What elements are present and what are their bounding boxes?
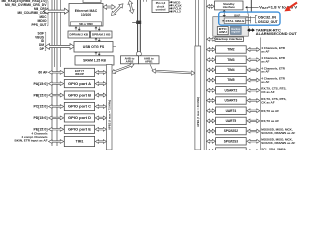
TIM1 box — [64, 136, 94, 146]
GPIO port B box — [64, 91, 94, 99]
arrow TIM1 to APB2 — [95, 140, 106, 144]
arrow TIM3 to pins — [247, 58, 260, 62]
svg-text:ALARM/SECOND OUT: ALARM/SECOND OUT — [256, 32, 297, 36]
labels SPI3/I2S3 AF pins — [261, 138, 295, 145]
svg-text:interface: interface — [223, 5, 235, 9]
arrow GPIO port D to APB2 — [95, 116, 106, 120]
clock output pins — [169, 0, 183, 13]
arrow TIM5 to pins — [247, 78, 260, 82]
arrow I2C1 to pins — [247, 150, 260, 154]
blue highlight rounded box — [219, 12, 280, 25]
arrow PB[15:0] to GPIO port B — [49, 93, 64, 97]
arrow backup to tamper pins — [247, 28, 255, 32]
red annotation arrow — [284, 3, 297, 12]
arrow PD[15:0] to GPIO port D — [49, 116, 64, 120]
arrow 60 AF to EXTI — [49, 71, 64, 75]
svg-text:TIM3: TIM3 — [227, 58, 234, 62]
USB OTG pin labels — [35, 31, 45, 51]
svg-text:PA[15:0]: PA[15:0] — [34, 82, 48, 86]
arrow USART2 to pins — [247, 88, 260, 92]
arrow USART3 to pins — [247, 99, 260, 103]
svg-text:RX,TX as AF: RX,TX as AF — [261, 119, 279, 123]
box above Ethernet MAC (cropped) — [83, 0, 101, 3]
VBAT power line — [250, 0, 252, 12]
svg-text:SRAM 1.25 KB: SRAM 1.25 KB — [83, 59, 106, 63]
arrow SPI3/I2S3 to pins — [247, 139, 260, 143]
svg-text:USART3: USART3 — [225, 99, 238, 103]
RTC AWU box — [217, 27, 228, 35]
labels SPI2/I2S2 AF pins — [261, 128, 295, 135]
arrow APB1 to SPI3/I2S3 — [207, 139, 216, 143]
APB2 bus bar — [106, 65, 112, 151]
SPI3/I2S3 box — [216, 138, 247, 145]
arrow standby to backup domain — [223, 10, 225, 17]
Standby interface box — [215, 1, 244, 10]
small arrow right of USB OTG — [113, 46, 116, 48]
labels TIM4 AF pins — [261, 66, 286, 73]
TIM2 box — [216, 46, 247, 53]
svg-text:PPS_OUT: PPS_OUT — [32, 23, 47, 27]
arrow SPI2/I2S2 to pins — [247, 129, 260, 133]
svg-text:APB2 (f max = 72 MHz): APB2 (f max = 72 MHz) — [107, 100, 111, 130]
svg-text:GPIO port C: GPIO port C — [68, 105, 92, 109]
arrow TIM2 to pins — [247, 48, 260, 52]
labels UART5 AF pins — [261, 119, 279, 123]
MII or RMII strip — [71, 22, 102, 26]
GPIO port C box — [64, 102, 94, 110]
arrow PA[15:0] to GPIO port A — [49, 82, 64, 86]
SPI2/I2S2 box — [216, 127, 247, 134]
svg-text:APB1 (f max = 36 MHz): APB1 (f max = 36 MHz) — [196, 97, 200, 127]
I2C1 box — [216, 148, 247, 155]
backup domain box — [213, 17, 249, 37]
svg-text:SPI2/I2S2: SPI2/I2S2 — [224, 129, 239, 133]
svg-text:SCK/CK, NSS/WS as AF: SCK/CK, NSS/WS as AF — [261, 131, 295, 135]
reset and clock control box — [152, 0, 169, 13]
svg-text:PLL3: PLL3 — [173, 10, 181, 14]
labels UART4 AF pins — [261, 109, 279, 113]
arrow MII bus to Ethernet MAC — [44, 8, 70, 14]
svg-text:DPRAM 2 KB: DPRAM 2 KB — [92, 33, 111, 37]
arrow bridge to APB1 bar — [152, 69, 195, 75]
svg-text:CK as AF: CK as AF — [261, 90, 274, 94]
arrow Ethernet MAC to bus matrix — [103, 5, 116, 10]
labels I2C1 AF pins — [0, 0, 1, 1]
svg-text:SCL, SDA, SMBA: SCL, SDA, SMBA — [261, 148, 286, 150]
diagonal arrow to bus matrix — [112, 4, 124, 16]
Backup interface box — [215, 37, 244, 41]
arrow bridge to APB2 bar — [112, 63, 135, 73]
junction tick on bus — [132, 22, 137, 24]
arrow PE[15:0] to GPIO port E — [49, 127, 64, 131]
GPIO port D box — [64, 114, 94, 122]
labels USART3 AF pins — [261, 97, 286, 104]
svg-text:UART5: UART5 — [226, 119, 237, 123]
arrow USB pins to USB OTG FS — [45, 44, 75, 50]
arrow GPIO port E to APB2 — [95, 127, 106, 131]
svg-text:RX,TX as AF: RX,TX as AF — [261, 109, 279, 113]
svg-text:as AF: as AF — [261, 49, 269, 53]
svg-text:TIM1: TIM1 — [76, 140, 84, 144]
svg-text:Backup interface: Backup interface — [216, 37, 243, 41]
arrow TIM4 to pins — [247, 68, 260, 72]
arrows MAC to DPRAM — [75, 27, 80, 31]
svg-text:CK as AF: CK as AF — [261, 100, 274, 104]
XTAL 32kHz box (highlighted) — [224, 18, 245, 24]
ethernet/usb bus lines — [54, 0, 56, 67]
arrow bus to backup interface — [207, 37, 216, 41]
APB1 bus lines (top left) — [195, 0, 197, 46]
svg-text:OSC32_OUT: OSC32_OUT — [258, 20, 278, 24]
connector bridge2 — [150, 64, 153, 71]
svg-text:control: control — [156, 7, 166, 11]
arrow GPIO port A to APB2 — [95, 82, 106, 86]
GPIO port E box — [64, 125, 94, 133]
svg-text:UART4: UART4 — [226, 109, 237, 113]
EXTI box — [64, 68, 94, 76]
arrow EXTI to APB2 — [95, 71, 106, 75]
svg-text:as AF: as AF — [261, 70, 269, 74]
svg-text:PD[15:0]: PD[15:0] — [34, 116, 48, 120]
MII/RMII signal labels — [2, 0, 48, 27]
svg-text:60 AF: 60 AF — [38, 71, 47, 75]
arrow APB1 to UART5 — [207, 119, 216, 123]
arrows DPRAM to USB OTG — [95, 38, 100, 42]
arrow APB1 to USART3 — [207, 99, 216, 103]
arrow bus to standby interface — [207, 5, 214, 9]
USB OTG FS box — [74, 42, 113, 53]
TIM5 box — [216, 76, 247, 83]
svg-text:GPIO port B: GPIO port B — [68, 93, 92, 97]
AHB to APB1 bridge — [139, 56, 160, 64]
svg-text:as AF: as AF — [261, 60, 269, 64]
right pin rail — [259, 38, 261, 151]
clock box top stubs — [143, 0, 145, 2]
svg-text:BKP: BKP — [234, 13, 240, 17]
arrow APB1 to TIM3 — [207, 58, 216, 62]
svg-text:BKIN, ETR input as AF: BKIN, ETR input as AF — [15, 139, 48, 143]
bridge top connector — [136, 52, 141, 56]
svg-text:as AF: as AF — [261, 80, 269, 84]
svg-text:XTAL 32kHz: XTAL 32kHz — [225, 19, 245, 23]
MII label bracket — [47, 1, 48, 26]
labels USART2 AF pins — [261, 87, 286, 94]
svg-text:USB OTG FS: USB OTG FS — [83, 45, 105, 49]
arrow APB1 to SPI2/I2S2 — [207, 129, 216, 133]
svg-text:DPRAM 2 KB: DPRAM 2 KB — [70, 33, 89, 37]
AHB system bus lines — [51, 0, 53, 146]
UART5 box — [216, 117, 247, 124]
svg-text:AWU: AWU — [219, 30, 227, 34]
arrow UART4 to pins — [247, 109, 260, 113]
svg-text:APB1: APB1 — [145, 59, 153, 63]
svg-text:TIM4: TIM4 — [227, 68, 234, 72]
arrow UART5 to pins — [247, 119, 260, 123]
vertical arrow to bus matrix — [128, 1, 134, 14]
arrow APB1 to TIM4 — [207, 68, 216, 72]
svg-text:GPIO port A: GPIO port A — [68, 82, 92, 86]
svg-text:OSC32_IN: OSC32_IN — [258, 15, 277, 19]
svg-text:TIM2: TIM2 — [227, 48, 234, 52]
svg-text:SPI3/I2S3: SPI3/I2S3 — [224, 139, 239, 143]
svg-text:PB[15:0]: PB[15:0] — [34, 93, 48, 97]
TIM4 box — [216, 66, 247, 73]
svg-text:PC[15:0]: PC[15:0] — [34, 105, 48, 109]
arrow APB1 to TIM5 — [207, 78, 216, 82]
arrow PC[15:0] to GPIO port C — [49, 105, 64, 109]
arrow APB1 to UART4 — [207, 109, 216, 113]
SRAM 1.25KB box — [75, 56, 114, 65]
arrow APB1 to TIM2 — [207, 48, 216, 52]
arrows USB to SRAM — [95, 52, 100, 56]
arrow APB1 to USART2 — [207, 88, 216, 92]
Ethernet MAC box — [69, 4, 103, 27]
arrow APB1 to I2C1 — [207, 150, 216, 154]
XTAL left tick — [222, 20, 224, 22]
svg-text:10/100: 10/100 — [81, 13, 91, 17]
labels TIM2 AF pins — [261, 46, 286, 53]
USART2 box — [216, 87, 247, 94]
DPRAM 2KB box (left) — [68, 31, 90, 38]
APB1 peripheral bus lines — [203, 0, 205, 150]
Backup registers box — [231, 26, 242, 34]
DPRAM 2KB box (right) — [91, 31, 113, 38]
arrow GPIO port B to APB2 — [95, 93, 106, 97]
svg-text:GPIO port E: GPIO port E — [68, 128, 92, 132]
labels TIM3 AF pins — [261, 56, 286, 63]
bus lines to AHB:APB bridges — [137, 0, 139, 53]
labels TIM5 AF pins — [261, 77, 286, 84]
USB label bracket — [45, 32, 46, 50]
USART3 box — [216, 97, 247, 104]
svg-text:SCK/CK, NSS/WS as AF: SCK/CK, NSS/WS as AF — [261, 141, 295, 145]
TIM3 box — [216, 56, 247, 63]
OSC32 wiring — [246, 15, 258, 23]
arrow TIM1 pins — [49, 140, 64, 144]
AHB to APB2 bridge — [121, 56, 139, 64]
svg-text:GPIO port D: GPIO port D — [68, 116, 92, 120]
svg-text:MII or RMII: MII or RMII — [79, 22, 93, 26]
arrow GPIO port C to APB2 — [95, 105, 106, 109]
APB1 bus bar — [195, 46, 201, 150]
svg-text:WKUP: WKUP — [75, 72, 84, 76]
svg-text:APB2: APB2 — [126, 59, 134, 63]
svg-text:TIM5: TIM5 — [227, 78, 234, 82]
VBAT annotation — [245, 6, 258, 16]
GPIO port A box — [64, 80, 94, 88]
UART4 box — [216, 107, 247, 114]
svg-text:register: register — [231, 30, 240, 34]
svg-text:USART2: USART2 — [225, 88, 238, 92]
